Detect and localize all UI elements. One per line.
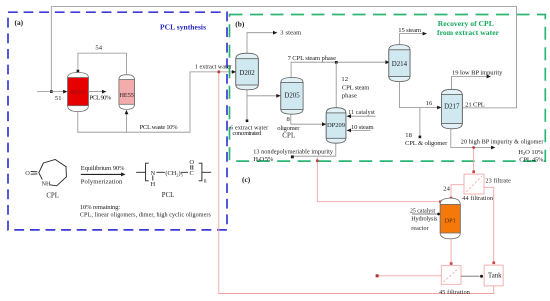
svg-text:PCL 90%: PCL 90% [89, 95, 112, 102]
wire stream 13 DP209 bottoms [294, 143, 336, 156]
svg-text:CPL & oligomer: CPL & oligomer [405, 140, 448, 147]
svg-text:54: 54 [95, 45, 102, 52]
svg-text:7 CPL steam phase: 7 CPL steam phase [288, 55, 336, 62]
column DP209 [326, 108, 346, 144]
wire stream 21 recycle: D217 right, up, across top, down to feed junction [51, 7, 516, 108]
svg-text:Polymerization: Polymerization [81, 178, 123, 185]
svg-text:NH: NH [42, 181, 52, 188]
svg-text:CPL: CPL [282, 132, 295, 139]
svg-text:RE52: RE52 [71, 89, 86, 96]
wire filter 45 to tank [461, 275, 480, 277]
svg-text:20 high BP impurity & oligomer: 20 high BP impurity & oligomer [461, 139, 544, 146]
svg-text:n: n [204, 178, 207, 184]
junction water recycle on 1 extract water [217, 70, 220, 73]
wire stream 16 D214 bottoms to D217 [399, 82, 437, 108]
wire water recycle: tank bottom to 1-extract-water junction [219, 73, 494, 294]
column D214 [389, 45, 410, 82]
svg-text:O: O [25, 170, 30, 177]
svg-text:1 extract water: 1 extract water [195, 64, 232, 70]
svg-text:8: 8 [287, 116, 291, 123]
title Recovery of CPL from extract water [437, 19, 500, 37]
svg-text:D214: D214 [392, 61, 408, 68]
wire stream 12 riser from DP209 [335, 62, 337, 108]
svg-text:D202: D202 [239, 70, 255, 77]
wire stream 7 CPL steam phase to D214 [291, 62, 386, 77]
svg-text:Recovery of CPL: Recovery of CPL [438, 19, 494, 28]
svg-text:25 catalyst: 25 catalyst [410, 209, 435, 215]
wire stream 24 filter44 to DP1 [451, 185, 464, 197]
svg-text:phase: phase [342, 92, 357, 99]
svg-text:45 filtration: 45 filtration [439, 289, 470, 296]
svg-text:H: H [150, 181, 155, 188]
svg-text:N: N [150, 170, 155, 177]
wire RE52 out PCL 90% [88, 91, 102, 93]
svg-text:44 filtration: 44 filtration [462, 195, 493, 202]
wire red feed from stream 20 to filtration 44 [473, 148, 475, 171]
wire feed 51 into RE52 [37, 91, 64, 93]
wire red branch from stream 13 to DP1 [317, 157, 439, 201]
wire stream 18 branch down [419, 108, 421, 136]
region border (a) PCL synthesis dashed blue [8, 12, 227, 230]
svg-text:HE55: HE55 [119, 92, 133, 99]
wire stream 20 D217 bottoms [451, 129, 492, 148]
svg-text:DP1: DP1 [445, 217, 456, 224]
svg-text:Tank: Tank [488, 273, 502, 280]
svg-text:PCL: PCL [162, 192, 174, 199]
svg-text:Equilibrium 90%: Equilibrium 90% [81, 165, 125, 172]
svg-text:from extract water: from extract water [437, 28, 500, 37]
tank [484, 265, 503, 286]
column D202 [236, 53, 258, 90]
svg-text:PCL synthesis: PCL synthesis [160, 22, 206, 31]
wire stream 11 catalyst into DP209 [350, 115, 376, 117]
svg-text:oligomer: oligomer [277, 125, 300, 132]
wire stream 25 catalyst into DP1 [412, 213, 437, 215]
junction red on stream 20 [472, 146, 475, 149]
svg-text:H2O 10%: H2O 10% [518, 149, 544, 156]
svg-text:12: 12 [341, 76, 348, 83]
svg-text:(b): (b) [235, 20, 245, 29]
svg-text:PCL waste 10%: PCL waste 10% [140, 124, 179, 131]
region border (b) dashed green [230, 15, 546, 162]
svg-text:10% remaining:: 10% remaining: [80, 204, 120, 211]
wire riser into HE55 bottom [126, 114, 128, 133]
svg-text:C: C [190, 170, 194, 177]
wire RE52 bottom, PCL waste, riser to 1 extract water into D202 [78, 72, 233, 132]
svg-text:concentrated: concentrated [232, 130, 262, 137]
svg-text:DP209: DP209 [327, 122, 345, 129]
wire stream 6 D202 bottoms [246, 90, 248, 120]
svg-text:H2O 5%: H2O 5% [253, 156, 273, 163]
wire stream 3 steam [247, 33, 273, 53]
wire stream 8 D205 bottoms to DP209 [291, 114, 323, 124]
reactor RE52 [68, 73, 89, 112]
svg-text:D217: D217 [444, 103, 460, 110]
svg-text:CPL: CPL [46, 193, 58, 200]
svg-text:18: 18 [405, 132, 412, 139]
column D217 [441, 89, 462, 129]
svg-text:13 nondepolymeriable impurity: 13 nondepolymeriable impurity [253, 148, 334, 155]
node source dot feed 45 [376, 274, 379, 277]
svg-text:CPL steam: CPL steam [342, 84, 370, 91]
svg-text:21 CPL: 21 CPL [465, 101, 485, 108]
junction recycle into feed 51 [50, 90, 53, 93]
wire stream 19 low BP impurity [452, 77, 488, 90]
filter 44 filtration [464, 174, 484, 194]
filter 45 filtration [441, 266, 461, 285]
wire DP1 bottoms to filter 45 [450, 239, 452, 262]
svg-text:(c): (c) [242, 175, 251, 184]
wire stream 23 filtrate to tank [484, 187, 494, 261]
wire stream 15 steam [399, 34, 423, 45]
chem structure CPL ring [31, 160, 67, 186]
svg-text:24: 24 [443, 186, 450, 193]
svg-text:reactor: reactor [411, 226, 428, 232]
reaction arrow Equilibrium/Polymerization [81, 173, 122, 175]
junction red on stream 13 / border [316, 159, 319, 162]
svg-text:16: 16 [426, 100, 433, 107]
svg-text:Hydrolysis: Hydrolysis [411, 216, 438, 223]
column D205 [281, 78, 303, 115]
chem structure PCL repeat unit [136, 163, 211, 181]
heater HE55 [119, 75, 135, 110]
junction stream 12 joins 7 [335, 61, 338, 64]
svg-text:D205: D205 [284, 92, 300, 99]
svg-text:CPL, linear oligomers, dimer,: CPL, linear oligomers, dimer, high cycli… [80, 213, 212, 219]
svg-text:(a): (a) [15, 18, 24, 27]
svg-text:19 low BP impurity: 19 low BP impurity [452, 69, 503, 76]
svg-text:3 steam: 3 steam [280, 30, 302, 37]
wire feed into filter 45 from left [378, 275, 441, 277]
svg-text:11 catalyst: 11 catalyst [348, 110, 375, 116]
wire branch to D205 [247, 95, 277, 97]
svg-text:(CH2)5: (CH2)5 [165, 170, 183, 178]
svg-text:10 steam: 10 steam [351, 124, 375, 131]
svg-text:15 steam: 15 steam [398, 27, 422, 34]
svg-text:CPL 45%: CPL 45% [519, 156, 544, 163]
reactor DP1 hydrolysis [440, 198, 460, 239]
svg-text:51: 51 [55, 95, 62, 102]
svg-text:O: O [189, 159, 194, 166]
svg-text:23 filtrate: 23 filtrate [485, 178, 511, 185]
wire loop 54: HE55 top up, left, down into RE52 top [78, 53, 127, 74]
wire stream 10 steam into DP209 [350, 129, 371, 131]
